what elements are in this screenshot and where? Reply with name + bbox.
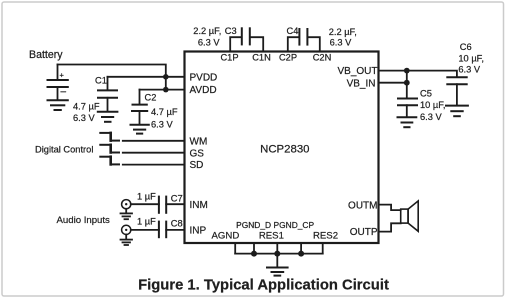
switch GS	[100, 145, 119, 153]
svg-text:Digital Control: Digital Control	[35, 144, 93, 154]
ground C5	[398, 117, 417, 127]
wire AGND stub	[234, 243, 236, 253]
wire C2 to AVDD pin	[140, 89, 185, 91]
svg-text:6.3 V: 6.3 V	[151, 120, 174, 130]
wire RES2 stub	[322, 243, 324, 253]
svg-text:C1N: C1N	[252, 53, 271, 63]
svg-text:C3: C3	[225, 26, 237, 36]
wire junction vertical to C5	[406, 71, 408, 99]
svg-text:OUTM: OUTM	[348, 200, 377, 211]
wire OUTM to speaker	[379, 205, 401, 211]
switch SD	[100, 157, 119, 165]
svg-text:C2P: C2P	[279, 53, 297, 63]
capacitor C7	[159, 197, 166, 213]
svg-text:6.3 V: 6.3 V	[330, 38, 353, 48]
battery BT1	[48, 65, 68, 101]
wire C1 to PVDD pin	[108, 76, 185, 78]
junction node AVDD	[163, 87, 169, 93]
wire ground stem	[276, 254, 278, 268]
svg-text:GS: GS	[190, 148, 205, 159]
wire PGND_CP stub	[300, 243, 302, 253]
wire RES1 stub	[276, 243, 278, 253]
svg-text:10 µF,: 10 µF,	[458, 53, 484, 63]
wire VB_IN to junction	[379, 82, 407, 84]
svg-text:Battery: Battery	[29, 49, 63, 61]
svg-text:C1: C1	[95, 76, 107, 86]
svg-text:C2: C2	[145, 92, 157, 102]
wire C7 to INM pin	[166, 203, 184, 205]
junction node VB_OUT	[404, 68, 410, 74]
svg-text:RES1: RES1	[259, 231, 284, 242]
wire C8 to INP pin	[166, 229, 184, 231]
capacitor C6	[447, 77, 466, 105]
wire VB_OUT to C6	[379, 71, 457, 77]
ground C2	[131, 125, 149, 134]
svg-text:4.7 µF: 4.7 µF	[73, 102, 100, 112]
wire battery top rail	[58, 65, 166, 77]
svg-text:C4: C4	[287, 26, 299, 36]
svg-text:1 µF: 1 µF	[137, 217, 156, 227]
junction node PGND_D	[251, 251, 257, 257]
op-amp U1 NCP2830 IC body	[185, 52, 379, 244]
junction node VB_IN	[404, 80, 410, 86]
svg-text:INP: INP	[190, 226, 207, 237]
capacitor C1	[98, 77, 117, 112]
capacitor C8	[159, 222, 166, 238]
svg-text:C7: C7	[171, 193, 183, 203]
svg-text:1 µF: 1 µF	[137, 191, 156, 201]
svg-text:+: +	[60, 71, 65, 80]
svg-text:AGND: AGND	[212, 231, 240, 242]
wire GS	[123, 152, 185, 154]
svg-text:2.2 µF,: 2.2 µF,	[193, 26, 221, 36]
svg-text:SD: SD	[190, 160, 204, 171]
svg-text:AVDD: AVDD	[190, 85, 217, 96]
svg-text:C2N: C2N	[313, 53, 332, 63]
svg-text:6.3 V: 6.3 V	[73, 113, 96, 123]
svg-text:6.3 V: 6.3 V	[420, 112, 443, 122]
svg-text:NCP2830: NCP2830	[260, 144, 309, 156]
wire J1 to C7	[131, 203, 159, 205]
svg-text:C5: C5	[420, 89, 432, 99]
svg-text:C1P: C1P	[220, 53, 238, 63]
svg-text:PVDD: PVDD	[190, 72, 218, 83]
svg-text:PGND_D: PGND_D	[236, 220, 271, 230]
svg-text:6.3 V: 6.3 V	[458, 65, 481, 75]
svg-text:Figure 1. Typical Application: Figure 1. Typical Application Circuit	[138, 277, 389, 293]
ground J1	[121, 213, 133, 219]
wire SD	[123, 164, 185, 166]
svg-text:–: –	[61, 87, 67, 98]
svg-text:WM: WM	[190, 136, 208, 147]
wire PGND_D stub	[253, 243, 255, 253]
ground bottom	[267, 268, 288, 276]
svg-text:Audio Inputs: Audio Inputs	[57, 215, 111, 226]
wire ground bus	[235, 253, 323, 255]
speaker LS1	[401, 201, 419, 231]
ground J2	[121, 240, 133, 245]
svg-text:VB_IN: VB_IN	[347, 79, 376, 90]
wire OUTP to speaker	[379, 223, 401, 231]
svg-text:RES2: RES2	[313, 231, 338, 242]
ground C1	[98, 112, 118, 122]
svg-text:2.2 µF,: 2.2 µF,	[329, 27, 357, 37]
svg-text:6.3 V: 6.3 V	[198, 37, 221, 47]
capacitor C3	[230, 28, 263, 51]
wire J2 to C8	[131, 229, 159, 231]
ground battery	[48, 100, 68, 110]
capacitor C5	[398, 99, 417, 118]
svg-text:4.7 µF: 4.7 µF	[151, 107, 178, 117]
svg-text:PGND_CP: PGND_CP	[274, 220, 315, 230]
svg-text:10 µF,: 10 µF,	[420, 100, 446, 110]
audio jack J1	[122, 200, 131, 214]
audio jack J2	[122, 225, 131, 239]
svg-text:VB_OUT: VB_OUT	[337, 66, 377, 77]
capacitor C4	[288, 29, 320, 52]
junction node PVDD	[163, 74, 169, 80]
svg-text:C8: C8	[171, 219, 183, 229]
junction node PGND_CP	[298, 251, 304, 257]
wire WM	[123, 140, 185, 142]
junction node RES1	[274, 251, 280, 257]
svg-text:INM: INM	[190, 200, 208, 211]
ground C6	[446, 106, 468, 117]
svg-text:OUTP: OUTP	[350, 227, 378, 238]
switch WM	[100, 133, 119, 141]
wire PVDD junction vertical	[165, 77, 167, 90]
capacitor C2	[132, 90, 147, 125]
svg-text:C6: C6	[460, 42, 472, 52]
